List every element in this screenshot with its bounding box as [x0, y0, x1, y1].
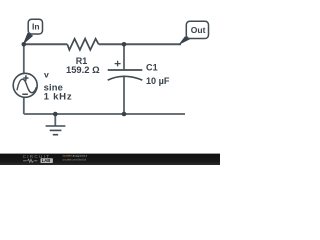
- svg-text:C1: C1: [146, 63, 158, 73]
- svg-text:1 kHz: 1 kHz: [44, 92, 73, 103]
- svg-text:Out: Out: [191, 25, 206, 35]
- svg-text:circuitlab.com/c6wv2yh: circuitlab.com/c6wv2yh: [63, 159, 87, 162]
- svg-text:ZackW5 / Assignment 2: ZackW5 / Assignment 2: [63, 155, 88, 158]
- svg-text:159.2 Ω: 159.2 Ω: [66, 64, 100, 75]
- svg-text:In: In: [32, 21, 40, 31]
- svg-text:v: v: [44, 70, 49, 80]
- svg-text:LAB: LAB: [42, 158, 51, 163]
- svg-text:10 µF: 10 µF: [146, 76, 170, 86]
